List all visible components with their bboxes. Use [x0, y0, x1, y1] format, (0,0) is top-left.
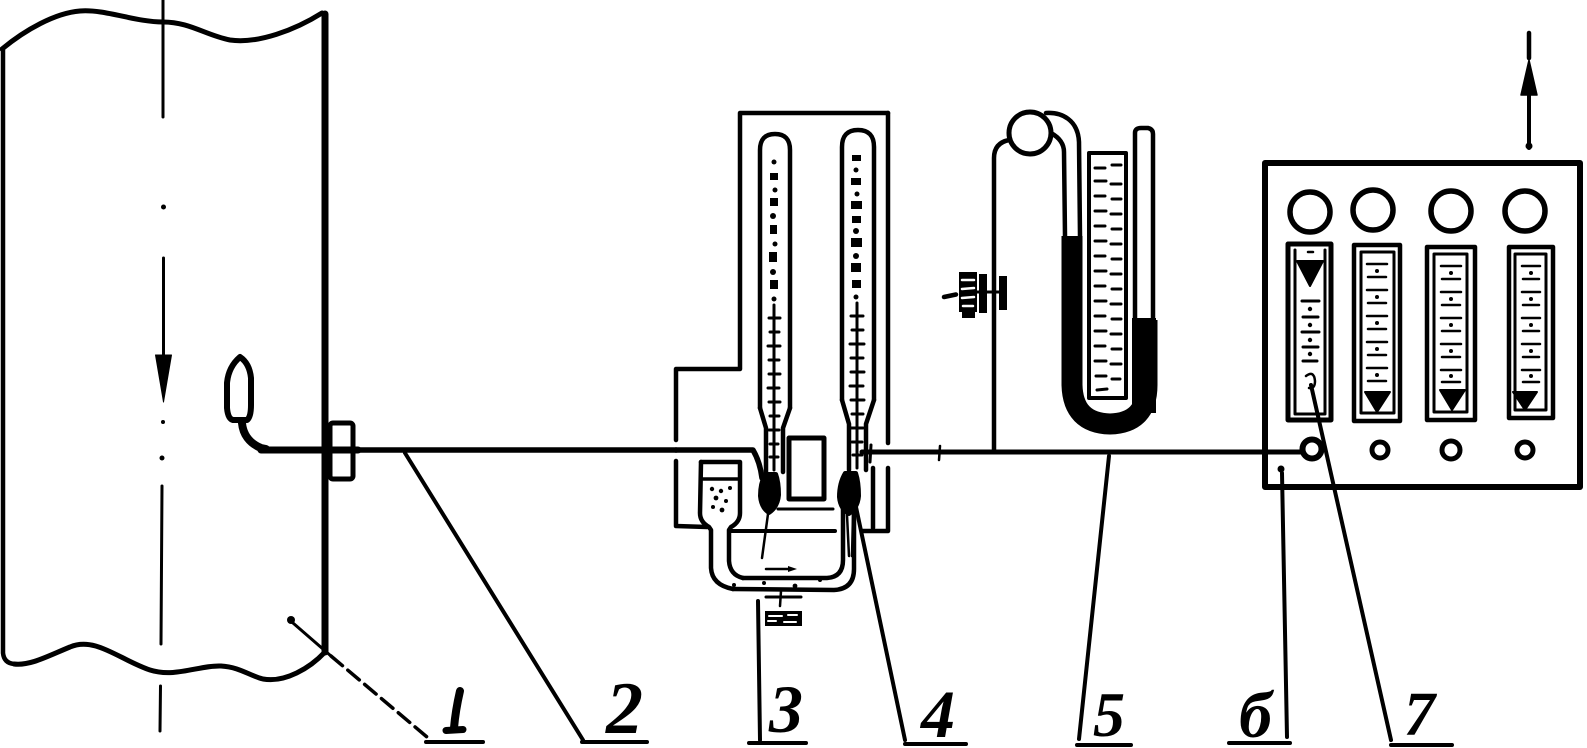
probe bend tube [242, 423, 266, 449]
wet thermometer (right) [842, 130, 874, 470]
manometer vessel left wall [994, 140, 1009, 450]
wet thermometer capillary dash-dot column [851, 155, 862, 300]
leader line 5 [1079, 456, 1109, 739]
leader line 2 [405, 453, 583, 740]
drain mark under tray [766, 596, 801, 599]
manometer bulb circle [1009, 112, 1051, 154]
duct left wall [3, 50, 14, 664]
panel port circles [1303, 440, 1322, 459]
leader line 4 [856, 507, 905, 740]
manometer scale plate [1089, 153, 1126, 398]
duct bottom wavy edge [14, 644, 325, 679]
wick [847, 515, 849, 556]
duct top wavy edge [2, 11, 322, 49]
bottle water dots [710, 486, 732, 512]
down tube from bulb [1046, 113, 1080, 236]
duct centerline (dash-dot with flow arrow) [156, 0, 172, 731]
pinch clamp on manometer vessel [944, 295, 956, 298]
svg-text:2: 2 [605, 668, 643, 748]
svg-text:5: 5 [1093, 679, 1125, 748]
sampling pipe: psychrometer to panel [862, 450, 1303, 455]
water bottle [701, 462, 743, 578]
tray water level [731, 529, 835, 533]
svg-text:3: 3 [768, 671, 803, 747]
manometer scale ticks [1095, 165, 1121, 390]
rotameter panel [1265, 163, 1580, 487]
bottle water level [703, 477, 739, 481]
sampling pipe: probe to psychrometer [261, 447, 358, 454]
wet thermometer bulb [839, 473, 859, 514]
wall gland / flange [330, 423, 353, 479]
leader line 3 [758, 601, 760, 740]
dry thermometer (left) [760, 134, 790, 472]
exhaust arrow [1527, 33, 1532, 58]
duct right wall [322, 14, 329, 652]
leader line 6 [1278, 466, 1285, 473]
leader line 1 with anchor dot [287, 616, 295, 624]
tray speckles [732, 578, 822, 588]
probe nozzle (teardrop) [227, 357, 251, 420]
rotameter tube 1 [1288, 244, 1331, 420]
rotameter tube 3 [1427, 247, 1475, 420]
svg-text:4: 4 [919, 676, 955, 748]
svg-text:б: б [1239, 679, 1275, 748]
label digit 1 [446, 691, 463, 731]
U-tube liquid (filled U band) [1072, 236, 1147, 424]
dry thermometer bulb [760, 474, 779, 513]
psychrometer case [676, 113, 888, 531]
knob circles [1290, 192, 1330, 232]
water tray (double wall) [733, 505, 854, 590]
leader line 7 [1311, 385, 1391, 740]
tray arrow [766, 568, 790, 571]
rotameter tube 4 [1509, 247, 1553, 418]
svg-text:7: 7 [1404, 681, 1438, 748]
manometer right tube [1135, 128, 1153, 325]
tray top rim [778, 508, 833, 511]
inner block between thermometers [789, 438, 824, 499]
dry thermometer capillary dash-dot column [769, 160, 778, 302]
rotameter tube 2 [1354, 245, 1400, 421]
